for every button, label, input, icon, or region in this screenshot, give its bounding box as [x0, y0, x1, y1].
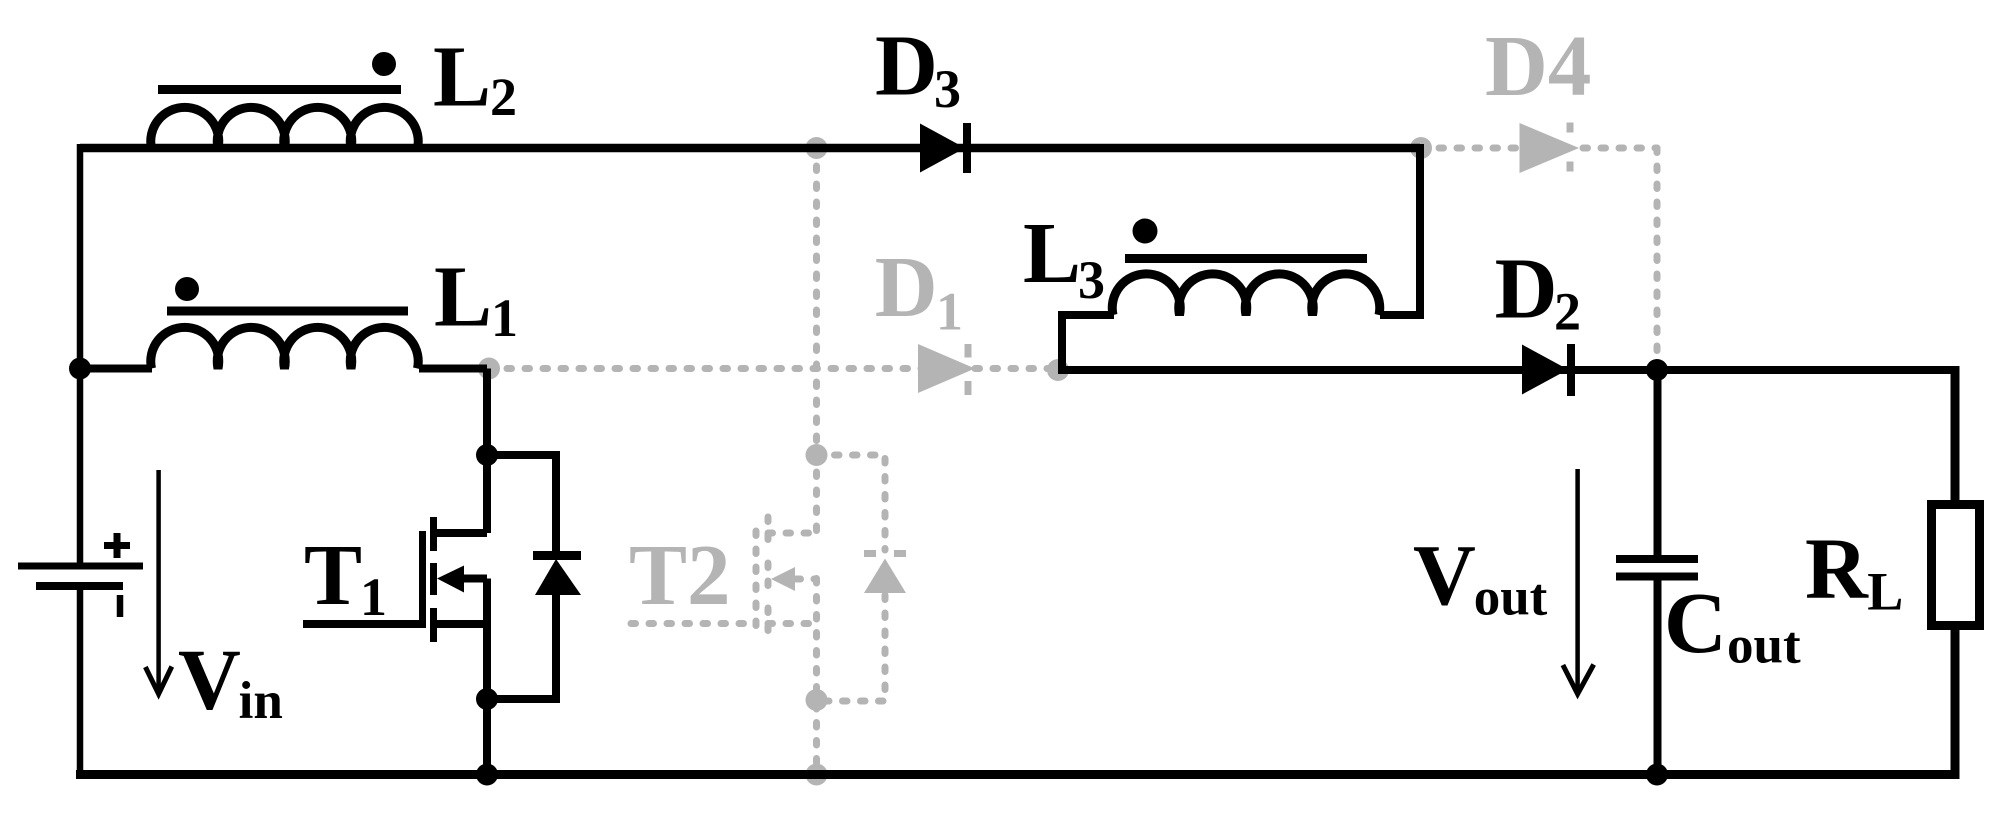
wire top rail — [80, 144, 1420, 153]
svg-text:D: D — [1495, 240, 1558, 337]
diode D2 triangle — [1522, 345, 1568, 395]
svg-text:in: in — [239, 672, 283, 730]
wire left vertical lower — [77, 586, 84, 779]
inductor L1 coil — [151, 327, 419, 368]
svg-text:T: T — [304, 526, 362, 623]
inductor L2 coil — [151, 107, 419, 148]
transistor T1 body diode triangle — [535, 559, 581, 595]
node gray dot L1 right terminal — [478, 358, 500, 380]
diode D4 triangle — [1520, 123, 1580, 173]
node gray dot D4 start — [1410, 137, 1432, 159]
transistor T1 channel segments — [430, 517, 437, 642]
transistor T1 gate lead — [303, 620, 422, 628]
transistor T2 gate lead — [631, 620, 756, 627]
transistor T1 arrow — [437, 566, 464, 593]
battery minus tick — [117, 595, 124, 617]
transistor T2 body diode branch top — [817, 455, 886, 550]
transistor T2 channel segments — [765, 517, 772, 551]
resistor RL body — [1932, 505, 1980, 626]
battery plus sign — [104, 533, 130, 558]
battery short plate — [36, 582, 123, 590]
node T1 bottom rail junction — [476, 764, 498, 786]
battery long plate — [18, 563, 143, 570]
wire output rail — [1058, 366, 1955, 374]
diode D1 triangle — [918, 344, 975, 393]
diode D3 triangle — [920, 124, 965, 173]
svg-text:L: L — [434, 248, 492, 345]
svg-text:L: L — [1023, 204, 1081, 301]
svg-text:1: 1 — [491, 288, 518, 348]
svg-text:3: 3 — [934, 59, 961, 119]
svg-text:2: 2 — [1554, 281, 1581, 341]
inductor L3 coil — [1112, 274, 1380, 315]
transistor T1 drain lead — [433, 529, 487, 537]
wire gray main vertical lower — [813, 579, 820, 775]
capacitor Cout top plate — [1616, 555, 1698, 563]
inductor L1 core bar — [167, 307, 408, 316]
diode D4 cathode bar dashed — [1567, 123, 1574, 133]
wire gray main vertical upper — [813, 148, 820, 533]
transistor T2 arrow — [771, 567, 795, 591]
wire T1 source down to rail — [483, 579, 491, 775]
wire bottom rail — [76, 770, 1960, 779]
node gray dot on bottom rail — [806, 764, 828, 786]
wire right branch lower — [1951, 626, 1960, 779]
svg-text:1: 1 — [936, 281, 963, 341]
wire right branch upper — [1951, 366, 1960, 504]
node output junction — [1646, 359, 1668, 381]
node gray dot on top wire — [806, 137, 828, 159]
wire capacitor top lead — [1654, 370, 1662, 556]
diode D3 cathode bar — [963, 123, 971, 173]
svg-text:1: 1 — [360, 567, 387, 627]
svg-text:3: 3 — [1078, 250, 1105, 310]
wire L1 left lead — [80, 365, 152, 373]
transistor T2 body diode triangle — [864, 559, 906, 594]
inductor L3 core bar — [1125, 254, 1367, 263]
svg-text:D4: D4 — [1485, 17, 1591, 114]
svg-text:D: D — [875, 238, 938, 335]
wire L3 step vertical — [1062, 315, 1114, 374]
diode D2 cathode bar — [1567, 344, 1575, 396]
diode D1 cathode bar dashed — [965, 344, 972, 358]
arrow Vin — [156, 470, 161, 692]
transistor T2 body diode vertical bottom — [817, 595, 886, 701]
inductor L2 polarity dot — [372, 52, 396, 76]
svg-text:C: C — [1664, 574, 1727, 671]
transistor T1 gate bar — [419, 531, 426, 628]
wire L1 to T1 drain — [483, 369, 491, 534]
svg-text:out: out — [1727, 617, 1801, 675]
transistor T2 drain lead — [768, 530, 817, 537]
arrow Vout — [1575, 469, 1580, 691]
inductor L3 polarity dot — [1133, 219, 1158, 244]
wire capacitor bottom lead — [1654, 580, 1662, 775]
svg-text:out: out — [1474, 569, 1548, 627]
transistor T1 body diode cathode bar — [533, 551, 581, 560]
transistor T2 source lead — [768, 620, 817, 627]
inductor L1 polarity dot — [175, 277, 199, 301]
transistor T2 gate bar — [753, 531, 760, 628]
svg-text:L: L — [1867, 562, 1903, 622]
inductor L2 core bar — [158, 85, 401, 94]
node gray dot T2 source junction — [806, 689, 828, 711]
transistor T1 source lead — [433, 620, 487, 628]
transistor T1 middle lead — [461, 575, 487, 583]
svg-text:2: 2 — [490, 67, 517, 127]
svg-text:T2: T2 — [629, 526, 731, 623]
node L1 left junction — [69, 358, 91, 380]
wire D1 dashed horizontal — [489, 365, 1058, 372]
svg-text:V: V — [178, 630, 241, 727]
node T1 source junction — [476, 688, 498, 710]
node gray dot T2 drain junction — [806, 444, 828, 466]
transistor T1 body diode branch top — [487, 455, 556, 556]
wire L3 right lead — [1380, 311, 1420, 319]
wire left vertical upper — [77, 144, 84, 563]
node gray dot L3 left terminal — [1047, 359, 1069, 381]
svg-text:L: L — [433, 28, 491, 125]
wire L1 right lead — [419, 365, 487, 373]
wire L3 to top rail vertical — [1416, 144, 1424, 319]
transistor T2 middle lead — [796, 576, 817, 583]
transistor T2 body diode cathode bar dashed — [864, 550, 876, 557]
capacitor Cout bottom plate — [1616, 573, 1698, 581]
diode D4 vertical dashed wire — [1654, 148, 1661, 360]
svg-text:D: D — [875, 17, 938, 114]
node capacitor bottom rail junction — [1646, 764, 1668, 786]
diode D4 dashed wire — [1421, 145, 1657, 152]
svg-text:V: V — [1413, 526, 1476, 623]
transistor T1 body diode vertical bottom — [487, 592, 556, 699]
svg-text:R: R — [1805, 520, 1869, 617]
node T1 drain junction — [476, 444, 498, 466]
